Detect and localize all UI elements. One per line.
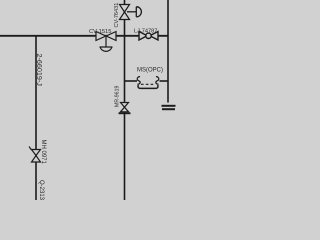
hose MS(OPC) bbox=[137, 77, 159, 89]
wire branch pipe right segment bbox=[160, 80, 169, 82]
wire main horizontal pipe bbox=[0, 35, 168, 37]
wire center vertical pipe bbox=[124, 0, 126, 200]
drain symbol bbox=[162, 106, 176, 109]
svg-text:CV-76431: CV-76431 bbox=[114, 3, 120, 28]
svg-text:LJ-74787: LJ-74787 bbox=[134, 29, 157, 35]
wire left vertical pipe bbox=[35, 36, 37, 200]
svg-text:CV-1515: CV-1515 bbox=[89, 29, 112, 35]
wire right vertical pipe bbox=[167, 0, 169, 103]
svg-text:MR-9619: MR-9619 bbox=[115, 86, 121, 107]
wire branch pipe left segment bbox=[125, 80, 138, 82]
valve LJ-74787 bbox=[139, 32, 158, 41]
valve MR-9619 bbox=[119, 103, 131, 114]
svg-text:2-66019-J: 2-66019-J bbox=[35, 54, 44, 87]
svg-text:MS(OPC): MS(OPC) bbox=[137, 68, 163, 74]
valve CV-1515 with diaphragm bbox=[96, 32, 116, 52]
svg-text:Q-2313: Q-2313 bbox=[38, 180, 44, 200]
svg-text:MH 0971: MH 0971 bbox=[40, 140, 46, 165]
valve CV-76431 bbox=[120, 5, 142, 20]
valve MH 0971 bbox=[29, 147, 41, 163]
